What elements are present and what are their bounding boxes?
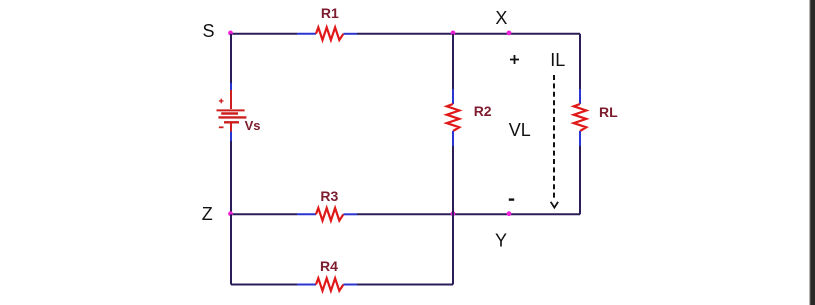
wire R1 right lead to top-right corner [343, 33, 580, 35]
wire RL branch top [579, 34, 581, 104]
wire top S to R1 left lead [231, 33, 316, 35]
wire R4 branch bottom left [231, 284, 316, 286]
svg-text:R2: R2 [474, 103, 492, 119]
wire R2 branch top [452, 34, 454, 104]
wire R4 branch right vertical [452, 214, 454, 284]
node junction top (R1/R2) [451, 31, 456, 36]
resistor R2 [447, 104, 460, 131]
svg-text:S: S [202, 21, 214, 41]
current arrow IL dashed line [553, 75, 555, 200]
resistor R1 [316, 27, 343, 40]
svg-text:Y: Y [495, 231, 507, 251]
label minus VL [509, 198, 514, 200]
svg-text:IL: IL [550, 50, 565, 70]
battery Vs [217, 90, 247, 132]
svg-text:VL: VL [509, 120, 531, 140]
svg-text:Z: Z [202, 204, 213, 224]
svg-text:RL: RL [599, 104, 618, 120]
resistor R4 [316, 278, 343, 291]
wire R4 branch left vertical [230, 214, 232, 284]
wire R2 branch bottom [452, 131, 454, 214]
node Y [507, 211, 512, 216]
wire battery to Z [230, 132, 232, 215]
wire RL branch bottom [579, 131, 581, 214]
wire bottom Z to R3 left lead [231, 213, 316, 215]
node Z [228, 211, 233, 216]
resistor R3 [316, 208, 343, 221]
resistor RL [574, 104, 587, 131]
svg-text:R1: R1 [321, 5, 339, 21]
right edge dark bar [809, 0, 815, 305]
node X [507, 31, 512, 36]
node S [228, 31, 233, 36]
current arrow IL arrowhead [551, 202, 558, 208]
wire left vertical S to battery [230, 34, 232, 90]
node junction bottom (R3/R2/R4) [451, 211, 456, 216]
wire R4 branch bottom right [343, 284, 453, 286]
svg-text:Vs: Vs [245, 118, 261, 133]
svg-text:R4: R4 [320, 258, 338, 274]
wire R3 right lead to bottom-right corner [343, 213, 580, 215]
svg-text:R3: R3 [320, 188, 338, 204]
label plus VL [510, 55, 519, 64]
svg-text:X: X [495, 8, 507, 28]
